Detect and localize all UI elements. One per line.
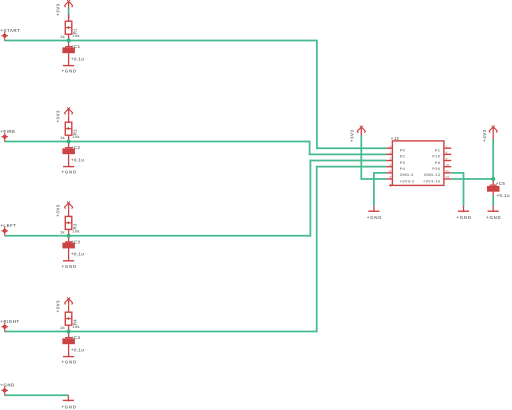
capacitor C1 0.1u	[62, 41, 84, 66]
port LEFT	[0, 223, 16, 236]
svg-text:+GND: +GND	[61, 405, 76, 410]
svg-text:1k: 1k	[60, 229, 65, 234]
capacitor C5 0.1u	[487, 179, 500, 195]
J2 left pin 1 (P0)	[386, 144, 405, 152]
port START	[0, 28, 20, 41]
svg-text:+LEFT: +LEFT	[0, 223, 16, 228]
svg-text:+3V3: +3V3	[55, 3, 60, 15]
wire net +3V3 from pin 12	[451, 178, 493, 180]
svg-text:P4: P4	[400, 166, 406, 171]
wire net +3V3 vertical	[492, 139, 494, 179]
svg-text:8: 8	[446, 150, 448, 154]
J2 left pin 4 (P4)	[386, 163, 405, 171]
wire net GND from pin 5	[374, 173, 386, 206]
port GND	[0, 383, 15, 396]
J2 right pin 12 (+3V3-16)	[423, 175, 451, 183]
resistor R1 10k	[60, 15, 80, 41]
svg-text:+GND: +GND	[486, 215, 501, 220]
svg-text:10k: 10k	[72, 134, 80, 139]
svg-text:+0.1u: +0.1u	[71, 252, 84, 257]
J2 right pin 11 (GND-13)	[424, 169, 451, 177]
ground under C3	[62, 261, 77, 269]
svg-text:+C2: +C2	[71, 145, 81, 150]
svg-text:GND-3: GND-3	[400, 172, 414, 177]
svg-text:+GND: +GND	[62, 170, 77, 175]
wire net GND	[5, 394, 69, 396]
svg-text:+J2: +J2	[391, 136, 400, 141]
svg-text:P10: P10	[432, 154, 440, 159]
wire net RIGHT	[5, 167, 387, 332]
ground under C4	[62, 357, 77, 365]
node FIRE junction	[67, 139, 71, 143]
svg-text:P8: P8	[435, 160, 441, 165]
node START junction	[67, 38, 71, 42]
svg-text:P30: P30	[432, 166, 440, 171]
svg-text:3: 3	[389, 157, 391, 161]
ground under C1	[62, 66, 77, 74]
svg-text:+3V3: +3V3	[55, 204, 60, 216]
svg-text:+GND: +GND	[62, 264, 77, 269]
J2 right pin 10 (P30)	[432, 163, 451, 171]
J2 right pin 7 (P1)	[435, 144, 452, 152]
svg-text:1: 1	[389, 144, 391, 148]
wire net +3V3	[68, 8, 70, 14]
svg-text:+GND: +GND	[0, 383, 15, 388]
J2 left pin 5 (GND-3)	[386, 169, 414, 177]
svg-text:+FIRE: +FIRE	[0, 129, 15, 134]
power +3V3 for R1	[65, 0, 73, 9]
ground below J2 right	[456, 206, 471, 220]
svg-text:+GND: +GND	[62, 69, 77, 74]
svg-text:+3V3: +3V3	[55, 110, 60, 122]
power +3V3 for R3	[65, 202, 73, 210]
svg-text:10k: 10k	[72, 324, 80, 329]
svg-text:4: 4	[389, 163, 391, 167]
resistor R4 10k	[60, 306, 80, 332]
J2 left pin 3 (P3)	[386, 157, 405, 165]
ground below J2 left	[367, 206, 382, 220]
svg-text:P0: P0	[400, 148, 406, 153]
svg-text:+0.1u: +0.1u	[497, 193, 510, 198]
svg-text:+3V3: +3V3	[350, 130, 355, 142]
wire lead R1 top	[68, 15, 70, 21]
J2 left pin 2 (P2)	[386, 150, 405, 158]
resistor R2 10k	[60, 116, 80, 142]
svg-text:+GND: +GND	[62, 360, 77, 365]
svg-text:+3V3-16: +3V3-16	[423, 178, 441, 183]
power +3V3 for R2	[65, 107, 73, 115]
svg-text:+GND: +GND	[456, 215, 471, 220]
wire net GND from pin 11	[451, 173, 463, 206]
capacitor C4 0.1u	[62, 332, 84, 357]
J2 right pin 9 (P8)	[435, 157, 452, 165]
svg-text:P1: P1	[435, 148, 441, 153]
port RIGHT	[0, 319, 19, 332]
wire C5 to GND	[492, 195, 494, 206]
svg-text:+C4: +C4	[71, 335, 81, 340]
node +3V3/C5 junction	[491, 177, 495, 181]
svg-text:5: 5	[389, 169, 391, 173]
connector J2	[389, 136, 444, 187]
J2 right pin 8 (P10)	[432, 150, 451, 158]
svg-text:2: 2	[389, 150, 391, 154]
capacitor C2 0.1u	[62, 142, 84, 167]
power +3V3 near J2	[357, 126, 365, 136]
svg-text:+0.1u: +0.1u	[71, 158, 84, 163]
power +3V3 far right	[489, 125, 497, 139]
capacitor C3 0.1u	[62, 236, 84, 261]
svg-text:1k: 1k	[60, 135, 65, 140]
svg-text:+0.1u: +0.1u	[71, 348, 84, 353]
svg-text:+3V3: +3V3	[482, 129, 487, 141]
svg-text:+GND: +GND	[367, 215, 382, 220]
svg-text:+START: +START	[0, 28, 20, 33]
wire net LEFT	[5, 161, 387, 236]
svg-text:12: 12	[446, 175, 450, 179]
svg-text:P2: P2	[400, 154, 406, 159]
svg-text:7: 7	[446, 144, 448, 148]
power +3V3 for R4	[65, 297, 73, 305]
svg-text:9: 9	[446, 157, 448, 161]
svg-text:1k: 1k	[60, 34, 65, 39]
svg-text:6: 6	[389, 175, 391, 179]
svg-text:+3V3-2: +3V3-2	[400, 178, 415, 183]
wire net +3V3 to J2 pin 6	[361, 135, 386, 179]
ground bottom	[61, 395, 76, 409]
svg-text:+C3: +C3	[71, 239, 81, 244]
node LEFT junction	[67, 234, 71, 238]
svg-text:1k: 1k	[60, 325, 65, 330]
J2 left pin 6 (+3V3-2)	[386, 175, 415, 183]
ground under C2	[62, 167, 77, 175]
port FIRE	[0, 129, 15, 142]
node RIGHT junction	[67, 329, 71, 333]
svg-text:+C1: +C1	[71, 44, 81, 49]
ground under C5	[486, 206, 501, 220]
svg-text:+RIGHT: +RIGHT	[0, 319, 19, 324]
svg-text:10k: 10k	[72, 33, 80, 38]
wire net START	[5, 41, 387, 149]
svg-text:GND-13: GND-13	[424, 172, 441, 177]
svg-text:+C5: +C5	[496, 181, 506, 186]
wire net FIRE	[5, 142, 387, 155]
svg-text:+0.1u: +0.1u	[71, 57, 84, 62]
svg-text:11: 11	[446, 169, 450, 173]
svg-text:10k: 10k	[72, 228, 80, 233]
svg-text:10: 10	[446, 163, 450, 167]
resistor R3 10k	[60, 210, 80, 236]
svg-text:+3V3: +3V3	[55, 300, 60, 312]
svg-text:P3: P3	[400, 160, 406, 165]
